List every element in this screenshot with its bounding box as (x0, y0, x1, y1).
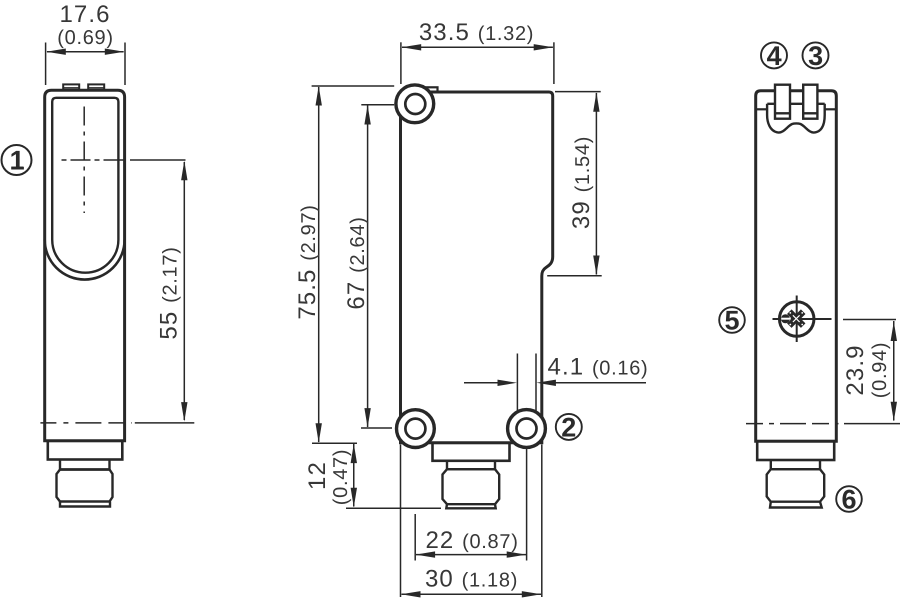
svg-text:67 (2.64): 67 (2.64) (343, 216, 370, 309)
side view connector plug (443, 469, 500, 504)
rear view tab left (775, 85, 790, 119)
rear view body (756, 91, 837, 442)
label circle 5 (719, 305, 745, 335)
front view connector neck (60, 460, 110, 470)
svg-text:17.6: 17.6 (59, 1, 110, 28)
svg-text:3: 3 (808, 41, 823, 71)
rear view connector plug (767, 469, 825, 502)
front view lower reference centerline (40, 422, 132, 424)
svg-text:22 (0.87): 22 (0.87) (425, 527, 518, 554)
label circle 3 (803, 41, 829, 71)
rear view tab right (803, 85, 817, 119)
rear view connector flange (757, 441, 834, 460)
dimension 23.9 (0.94) (842, 320, 900, 424)
svg-text:4: 4 (767, 41, 782, 71)
dimension 33.5 (1.32) (401, 19, 554, 84)
svg-text:1: 1 (10, 145, 25, 175)
front view connector end ring (60, 502, 110, 507)
screw cross (789, 312, 803, 326)
dimension 22 (0.87) (415, 449, 526, 561)
front view vertical centerline (83, 107, 85, 214)
extension lines hole diameter 4.1 (517, 354, 536, 414)
dimension 55 (2.17) (156, 161, 188, 422)
svg-text:5: 5 (724, 305, 739, 335)
svg-text:12: 12 (304, 461, 331, 490)
front view top tab right (88, 84, 104, 90)
adjustment screw crosshair (773, 296, 832, 343)
rear view centerline (746, 423, 839, 425)
adjustment screw circle (779, 302, 814, 337)
dimension 4.1 (0.16) (464, 354, 648, 387)
mounting hole bottom right (508, 410, 546, 448)
side view connector flange (433, 443, 510, 461)
side view body (401, 92, 553, 443)
dimension 12 (0.47) (304, 444, 441, 509)
side view connector end ring (446, 504, 495, 508)
svg-text:23.9: 23.9 (842, 344, 869, 395)
front view connector flange (48, 441, 123, 460)
front view top tab left (63, 84, 79, 90)
rear view clamp (767, 104, 825, 133)
svg-text:2: 2 (561, 412, 576, 442)
svg-text:(0.47): (0.47) (330, 449, 352, 505)
mounting hole top (396, 85, 434, 123)
svg-text:(0.94): (0.94) (869, 342, 891, 398)
svg-text:(0.69): (0.69) (57, 27, 113, 49)
side view connector neck (447, 461, 495, 469)
front view bezel curve (45, 240, 125, 280)
svg-text:33.5 (1.32): 33.5 (1.32) (419, 19, 534, 46)
svg-text:39 (1.54): 39 (1.54) (568, 136, 595, 229)
front view connector plug (57, 470, 113, 502)
svg-text:55 (2.17): 55 (2.17) (156, 246, 183, 339)
label circle 1 (2, 145, 32, 175)
svg-text:6: 6 (841, 484, 856, 514)
dimension 75.5 (2.97) (294, 86, 394, 443)
rear view connector neck (771, 460, 820, 469)
mounting hole bottom left (397, 410, 435, 448)
svg-text:75.5 (2.97): 75.5 (2.97) (294, 204, 321, 319)
dimension 39 (1.54) (547, 92, 602, 276)
front view body (45, 90, 125, 441)
rear view seam line (756, 108, 837, 110)
front view horizontal centerline (62, 159, 128, 161)
dimension 17.6 (0.69) (46, 1, 125, 85)
label circle 2 (556, 412, 582, 442)
dimension 30 (1.18) (401, 445, 542, 598)
label circle 4 (761, 41, 787, 71)
front view lens window (52, 98, 118, 273)
svg-text:30 (1.18): 30 (1.18) (425, 566, 518, 593)
screw slot dot (781, 314, 791, 323)
dimension 67 (2.64) (343, 105, 394, 428)
label circle 6 (836, 484, 862, 514)
svg-text:4.1 (0.16): 4.1 (0.16) (548, 354, 649, 381)
rear view connector end ring (770, 502, 822, 508)
side view top tab (414, 87, 438, 92)
